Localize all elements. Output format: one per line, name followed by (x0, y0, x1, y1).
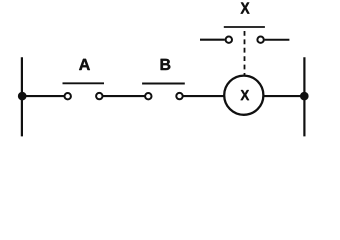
contact B (normally-open pushbutton) (142, 84, 185, 100)
contact X (normally-open seal-in contact) (224, 27, 265, 43)
contact A (normally-open pushbutton) (63, 83, 105, 99)
wire: coil X to right rail (264, 95, 305, 97)
left power rail (21, 57, 23, 136)
label X above seal-in contact (241, 3, 250, 14)
right power rail (303, 57, 305, 136)
label A (79, 59, 90, 70)
wire: contact B to coil X (184, 95, 225, 97)
label X inside coil (241, 90, 250, 100)
node: left rail junction dot (18, 92, 27, 101)
dashed mechanical link: contact X to coil X (244, 31, 246, 75)
label B (161, 59, 171, 70)
node: right rail junction dot (300, 92, 309, 101)
wire: contact A to contact B (103, 95, 145, 97)
wire: left rail to contact A (22, 95, 64, 97)
wire: left lead of contact X (200, 39, 225, 41)
coil X (relay coil) (224, 76, 263, 115)
wire: right lead of contact X (265, 39, 290, 41)
